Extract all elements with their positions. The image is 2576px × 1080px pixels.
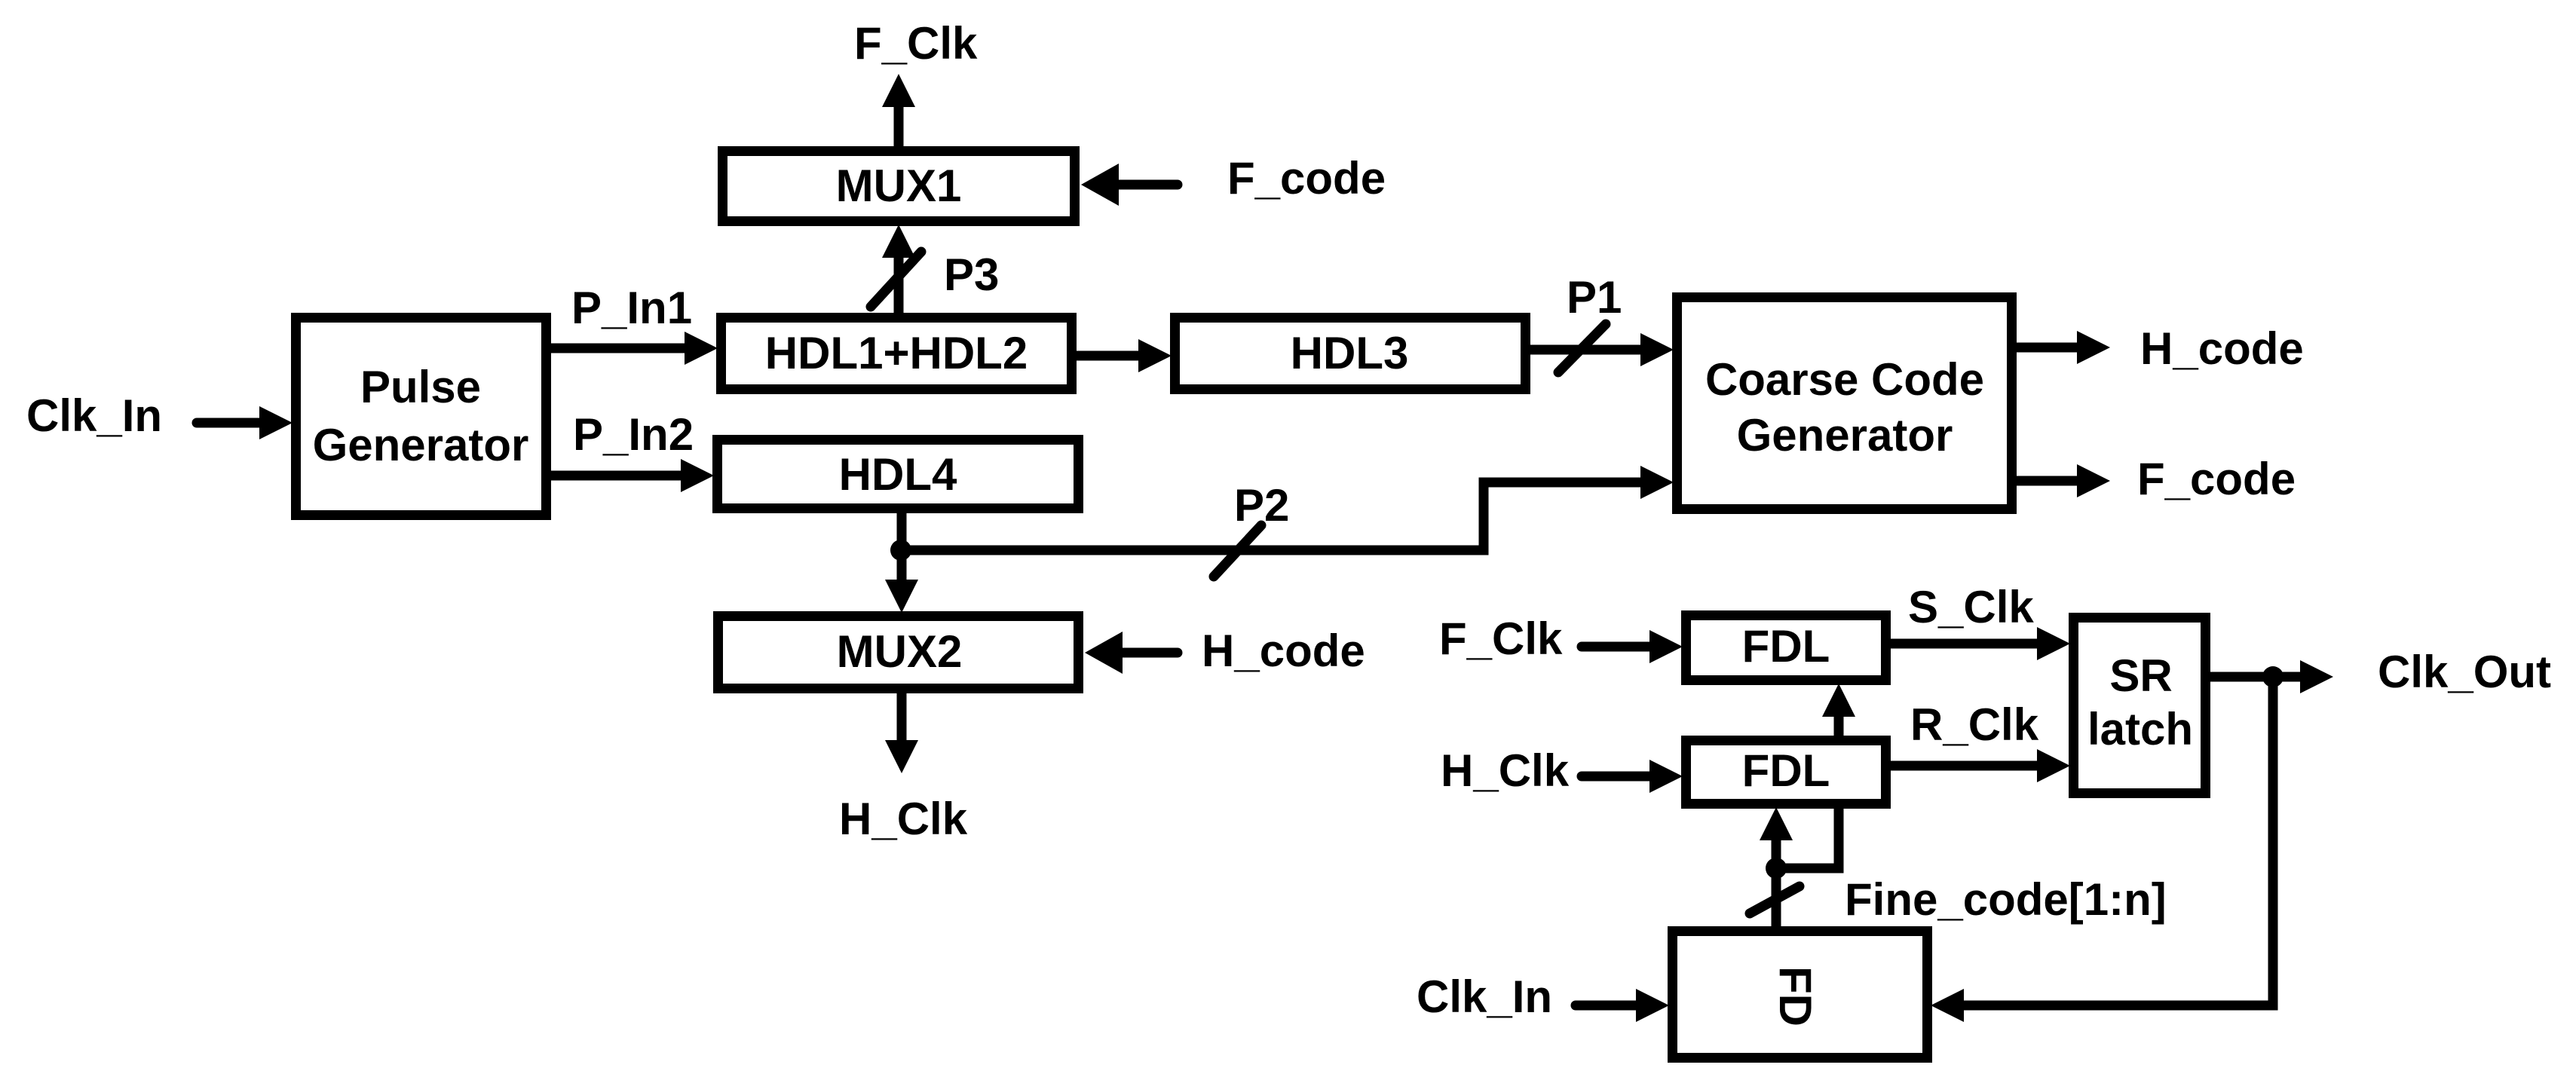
svg-text:Generator: Generator xyxy=(313,420,529,470)
svg-text:P_In2: P_In2 xyxy=(573,409,694,460)
svg-text:MUX1: MUX1 xyxy=(836,161,962,211)
junction dot on HDL4 output xyxy=(890,540,911,561)
wire from junction down to FD xyxy=(1772,868,1781,927)
svg-text:H_Clk: H_Clk xyxy=(1441,745,1570,796)
wire P_In2 from Pulse Generator to HDL4 xyxy=(551,471,681,481)
wire arrow from FDL bottom up into FDL top xyxy=(1834,717,1844,736)
block FDL (top) xyxy=(1686,616,1886,681)
wire P2 bus from junction to Coarse Code Generator xyxy=(902,482,1640,550)
svg-text:Pulse: Pulse xyxy=(360,362,481,412)
block MUX2 xyxy=(718,616,1079,689)
svg-text:Fine_code[1:n]: Fine_code[1:n] xyxy=(1845,874,2167,925)
svg-text:HDL1+HDL2: HDL1+HDL2 xyxy=(765,328,1028,378)
block FD xyxy=(1673,932,1928,1058)
svg-text:Clk_In: Clk_In xyxy=(1417,971,1552,1022)
wire from HDL4 down to MUX2 xyxy=(897,513,907,580)
svg-text:FDL: FDL xyxy=(1742,621,1830,672)
svg-text:H_code: H_code xyxy=(1202,626,1365,676)
wire H_code output from Coarse Code Generator xyxy=(2017,343,2077,353)
block MUX1 xyxy=(723,151,1075,222)
svg-text:P2: P2 xyxy=(1234,480,1289,531)
junction dot on Clk_Out net xyxy=(2262,666,2283,687)
wire H_Clk output arrow down from MUX2 xyxy=(897,693,907,740)
wire H_Clk arrow into FDL2 xyxy=(1582,772,1649,782)
svg-text:MUX2: MUX2 xyxy=(837,626,963,677)
svg-text:HDL3: HDL3 xyxy=(1291,328,1409,378)
svg-text:R_Clk: R_Clk xyxy=(1910,699,2039,750)
svg-text:H_Clk: H_Clk xyxy=(839,794,968,844)
wire feedback from Clk_Out down and left into FD xyxy=(1964,677,2273,1005)
svg-text:F_Clk: F_Clk xyxy=(1439,613,1563,664)
svg-text:Clk_In: Clk_In xyxy=(26,390,162,441)
wire R_Clk from FDL bottom to SR latch xyxy=(1891,761,2037,771)
wire L-shaped branch from FDL bottom down to junction xyxy=(1776,809,1839,868)
wire F_code output from Coarse Code Generator xyxy=(2017,476,2077,486)
bus slash P1 xyxy=(1558,324,1606,372)
wire Clk_Out from SR latch xyxy=(2210,672,2300,682)
svg-text:FDL: FDL xyxy=(1742,745,1830,796)
bus slash Fine_code xyxy=(1750,886,1800,913)
svg-text:FD: FD xyxy=(1770,966,1821,1026)
wire S_Clk from FDL top to SR latch xyxy=(1891,639,2037,649)
wire P1 bus from HDL3 to Coarse Code Generator xyxy=(1530,345,1640,355)
svg-text:Generator: Generator xyxy=(1737,410,1953,460)
wire P_In1 from Pulse Generator to HDL1+HDL2 xyxy=(551,344,685,353)
wire Fine_code arrow up into FDL bottom xyxy=(1772,840,1781,868)
svg-text:latch: latch xyxy=(2087,704,2193,754)
svg-text:F_Clk: F_Clk xyxy=(854,18,978,69)
svg-text:F_code: F_code xyxy=(2137,454,2296,504)
svg-text:SR: SR xyxy=(2109,650,2172,701)
wire F_code input arrow into MUX1 right side xyxy=(1119,180,1178,190)
junction dot on Fine_code net xyxy=(1766,858,1787,879)
bus slash P2 xyxy=(1214,525,1261,577)
block Pulse Generator xyxy=(296,318,547,516)
svg-text:H_code: H_code xyxy=(2140,323,2304,374)
block HDL3 xyxy=(1175,318,1526,390)
svg-text:Clk_Out: Clk_Out xyxy=(2378,647,2551,697)
wire from HDL1+HDL2 to HDL3 xyxy=(1077,351,1138,361)
svg-text:P3: P3 xyxy=(944,249,999,300)
wire F_Clk output arrow up from MUX1 xyxy=(894,107,904,146)
wire Clk_In arrow into FD xyxy=(1576,1001,1636,1011)
svg-text:Coarse Code: Coarse Code xyxy=(1705,354,1984,405)
wire H_code input arrow into MUX2 right side xyxy=(1123,648,1178,658)
wire F_Clk arrow into FDL1 xyxy=(1582,642,1649,652)
wire Clk_In arrow into Pulse Generator xyxy=(197,418,259,428)
svg-text:P1: P1 xyxy=(1567,272,1622,323)
svg-text:F_code: F_code xyxy=(1227,153,1386,203)
block Coarse Code Generator xyxy=(1677,298,2012,509)
block FDL (bottom) xyxy=(1686,741,1886,804)
svg-text:S_Clk: S_Clk xyxy=(1908,582,2034,632)
block HDL4 xyxy=(718,440,1079,509)
svg-text:HDL4: HDL4 xyxy=(839,449,957,500)
block SR latch xyxy=(2074,618,2206,794)
block HDL1+HDL2 xyxy=(721,318,1072,390)
wire P3 bus from HDL1+HDL2 up into MUX1 xyxy=(894,258,904,314)
bus slash P3 xyxy=(871,252,921,307)
svg-text:P_In1: P_In1 xyxy=(571,283,692,333)
